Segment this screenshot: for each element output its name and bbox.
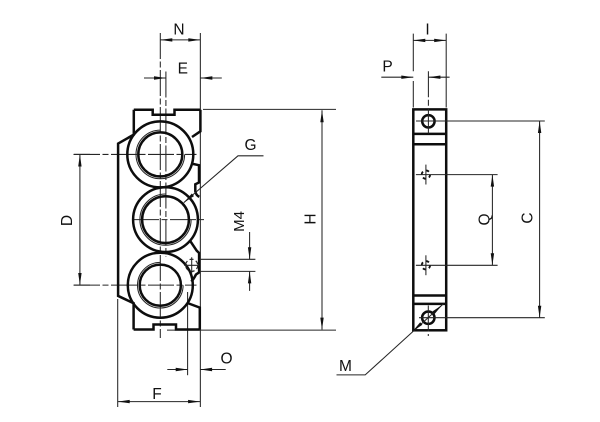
dimension E line: [144, 77, 222, 79]
dimension P: [381, 76, 449, 78]
port 3 bore circle: [140, 265, 181, 306]
side face line 4: [413, 303, 446, 306]
dimension O: [167, 369, 225, 371]
svg-text:G: G: [244, 137, 256, 154]
svg-text:C: C: [520, 212, 537, 223]
svg-text:F: F: [152, 386, 161, 403]
hole2 crosshair + Q ext: [425, 255, 427, 275]
side face line 2: [413, 143, 446, 146]
dimension C line: [539, 121, 541, 318]
body left silhouette: [118, 110, 134, 330]
centerline ports 1&3 (vertical, also N extension): [159, 33, 161, 338]
side body outline: [413, 109, 446, 330]
svg-text:I: I: [425, 21, 429, 38]
hole2 crosshair: [184, 257, 199, 273]
port 3 thread arc: [138, 262, 184, 308]
side centerline vertical bottom: [427, 306, 429, 337]
dimension I line: [413, 39, 446, 41]
leader M: [337, 304, 444, 375]
svg-text:O: O: [220, 351, 232, 368]
dimension F: [118, 401, 200, 403]
bottom mounting hole: [422, 312, 434, 324]
N arrows: [160, 38, 172, 41]
dimension N line: [160, 39, 200, 41]
port 1 bore circle: [138, 132, 182, 176]
F left extension: [117, 299, 119, 407]
body outline top edge with notch: [134, 110, 201, 115]
port 3 boss circle: [128, 253, 193, 318]
side face line 1: [413, 133, 446, 136]
body bottom-right corner: [187, 303, 199, 330]
svg-text:Q: Q: [477, 213, 494, 225]
E arrows: [154, 76, 166, 79]
M4 hole 2 dashed circle: [186, 259, 198, 271]
pad around front hole 2: [191, 242, 200, 282]
svg-text:M: M: [339, 358, 352, 375]
centerline port2 horizontal: [133, 219, 204, 221]
top mounting hole: [422, 115, 434, 127]
svg-text:M4: M4: [231, 211, 248, 232]
port 2 bore circle: [142, 196, 189, 243]
dimension D line: [74, 154, 91, 285]
svg-text:H: H: [303, 213, 320, 224]
pad around front hole 1: [192, 164, 200, 197]
svg-text:N: N: [173, 22, 184, 39]
body bottom edge with notch: [134, 325, 200, 330]
side threaded hole 1: [422, 170, 430, 178]
port 2 thread arc: [140, 194, 191, 245]
hole1 crosshair + Q ext: [425, 165, 427, 185]
centerline port 2 (vertical, also E extension): [165, 72, 167, 258]
H top extension: [203, 108, 336, 110]
side face line 3: [413, 294, 446, 297]
H bottom extension: [167, 329, 336, 331]
centerline port1 horizontal (merges D ext): [74, 153, 197, 155]
svg-text:D: D: [59, 215, 76, 226]
port 1 thread arc: [136, 130, 185, 179]
side threaded hole 2: [422, 261, 430, 269]
dimension H line: [321, 110, 323, 329]
side centerline vertical top (P ext): [427, 71, 429, 133]
leader G: [184, 156, 264, 203]
port 1 boss circle: [127, 121, 193, 187]
centerline port3 horizontal (merges D ext): [74, 284, 197, 286]
body right edge top + chamfer: [192, 110, 200, 137]
dimension M4: [200, 232, 256, 291]
C top extension: [416, 120, 545, 122]
right face line: [199, 33, 201, 407]
O left extension: [187, 292, 189, 375]
dimension Q line: [491, 175, 493, 266]
svg-text:P: P: [382, 59, 392, 76]
port 2 boss circle: [133, 187, 198, 252]
C bottom extension: [419, 317, 545, 319]
I extension lines: [413, 34, 446, 108]
svg-text:E: E: [178, 61, 188, 78]
